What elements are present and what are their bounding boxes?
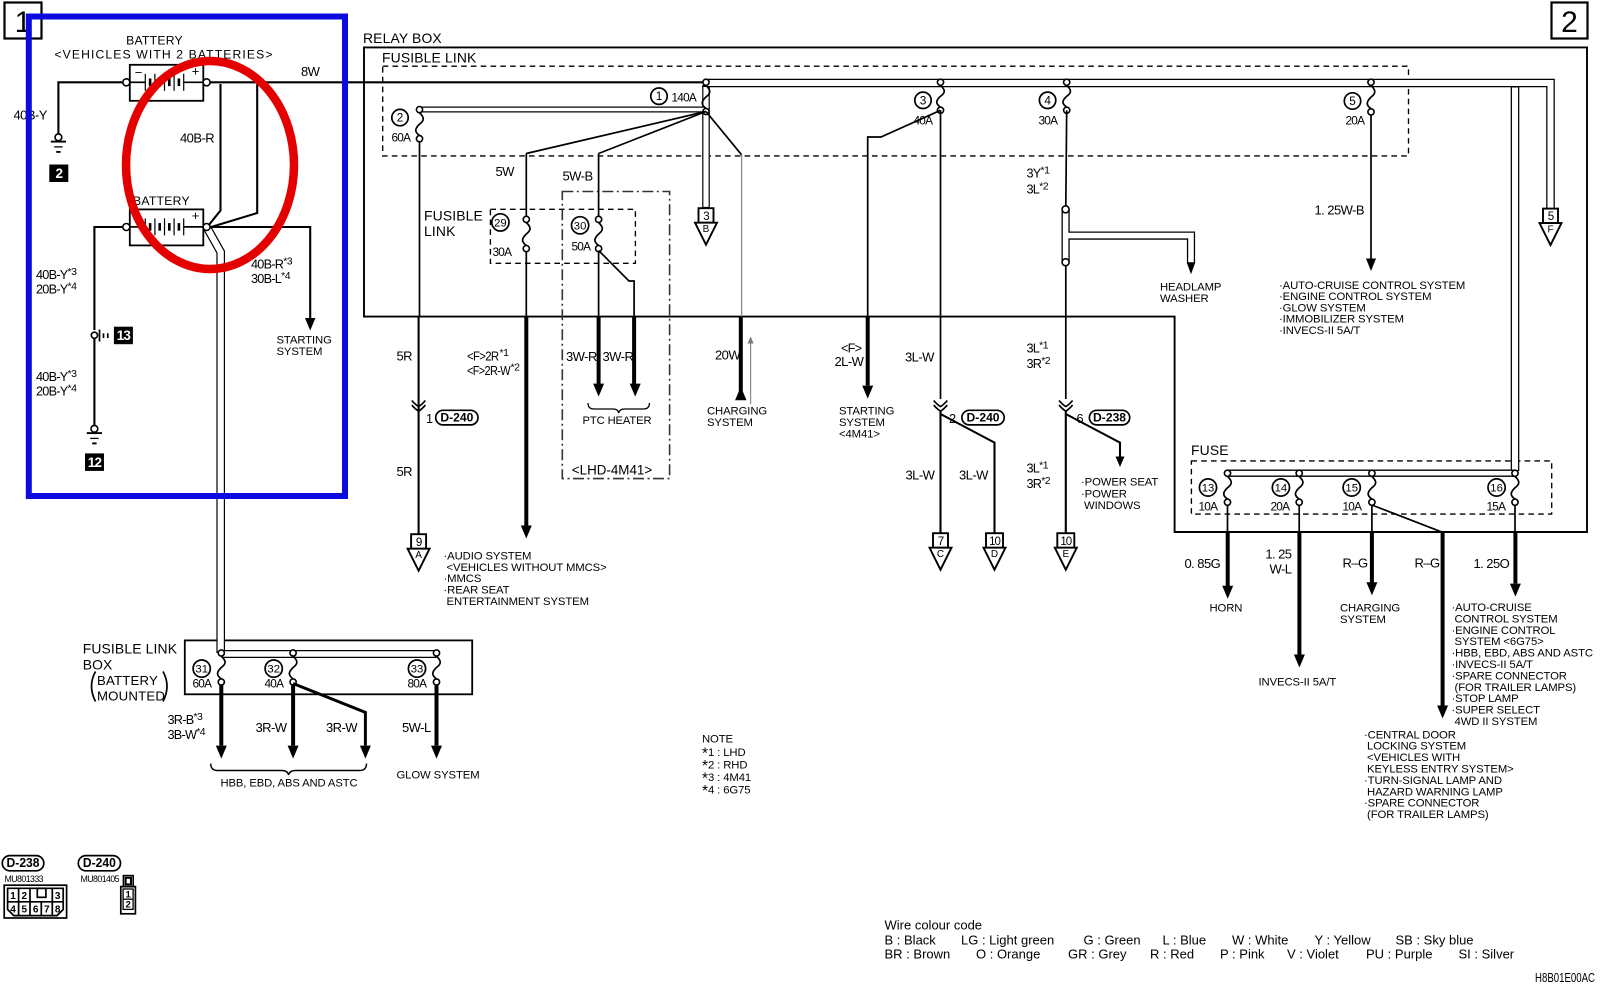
- svg-text:MOUNTED: MOUNTED: [97, 689, 165, 704]
- svg-text:12: 12: [88, 455, 102, 470]
- fusible link 33 80A: [408, 650, 441, 691]
- svg-text:RELAY BOX: RELAY BOX: [363, 30, 442, 46]
- svg-text:MU801333: MU801333: [5, 874, 44, 884]
- svg-text:3: 3: [920, 93, 927, 107]
- battery B2 (lower): [130, 208, 204, 246]
- inline connector 6 D-238 chevrons: [1059, 401, 1073, 407]
- svg-text:7: 7: [44, 905, 50, 916]
- svg-text:FUSE: FUSE: [1191, 442, 1229, 458]
- svg-text:HBB, EBD, ABS AND ASTC: HBB, EBD, ABS AND ASTC: [221, 778, 358, 790]
- svg-text:BATTERY: BATTERY: [97, 673, 158, 688]
- wire 33 output 5W-L: [435, 685, 439, 746]
- svg-text:1. 25: 1. 25: [1265, 547, 1291, 562]
- svg-text:+: +: [192, 208, 200, 223]
- svg-text:3R-W: 3R-W: [326, 720, 358, 735]
- terminal 3/B: [695, 208, 717, 245]
- relay box outline: [364, 47, 1587, 532]
- battery B1 terminal circles: [123, 79, 130, 86]
- fuse 16 15A: [1487, 470, 1519, 513]
- svg-text:60A: 60A: [392, 131, 412, 145]
- blue highlight box: [29, 17, 345, 497]
- svg-text:H8B01E00AC: H8B01E00AC: [1535, 971, 1595, 985]
- wire fuse 3 output 3L-W: [940, 110, 942, 399]
- svg-text:D-240: D-240: [967, 410, 1000, 424]
- wire battery B2 negative to connector 13: [94, 227, 122, 330]
- svg-text:80A: 80A: [408, 677, 428, 691]
- bus wire white cores: [208, 83, 1551, 654]
- svg-text:5R: 5R: [397, 349, 413, 364]
- brace HBB EBD ABS ASTC: [211, 764, 367, 776]
- inline connector 1 D-240 chevrons: [412, 401, 426, 407]
- svg-text:3W-R: 3W-R: [603, 349, 634, 364]
- page marker 2 box: [1552, 3, 1588, 40]
- svg-text:FUSIBLE: FUSIBLE: [424, 208, 483, 224]
- connector D-240 pin drawing: [121, 876, 136, 914]
- fusible link dashed box: [383, 66, 1409, 156]
- svg-text:1. 25W-B: 1. 25W-B: [1315, 203, 1365, 218]
- wire 3L-W branch to terminal 10D: [941, 414, 995, 533]
- wire connector 13 to ground 12: [93, 338, 95, 425]
- wire 20W charging input: [741, 155, 743, 317]
- wire 3L/3R to inline connector 6: [1065, 266, 1067, 399]
- svg-text:W-L: W-L: [1270, 562, 1292, 577]
- arrow fuse16 systems: [1510, 584, 1521, 597]
- svg-text:2L-W: 2L-W: [835, 354, 865, 369]
- wire 5W drop to fusible link 29: [525, 154, 527, 217]
- svg-text:R–G: R–G: [1415, 556, 1441, 571]
- svg-text:3L-W: 3L-W: [906, 468, 936, 483]
- svg-text:F: F: [1547, 225, 1553, 236]
- fusible link 2 60A: [392, 107, 424, 145]
- svg-text:CHARGING: CHARGING: [707, 406, 767, 418]
- connector D-238 pin drawing: [4, 885, 66, 918]
- svg-text:30A: 30A: [493, 245, 513, 259]
- svg-text:WASHER: WASHER: [1160, 293, 1209, 305]
- wire fuse 3 branch to starting 4M41: [868, 110, 941, 316]
- svg-text:4: 4: [10, 905, 16, 916]
- wire 3L-W to terminal 7C: [939, 411, 941, 533]
- svg-text:<VEHICLES WITH 2 BATTERIES>: <VEHICLES WITH 2 BATTERIES>: [54, 47, 273, 61]
- svg-text:BATTERY: BATTERY: [133, 194, 190, 208]
- arrow starting system 4M41: [862, 386, 873, 399]
- battery B2 terminal circles: [123, 224, 130, 231]
- svg-text:D-238: D-238: [1093, 410, 1126, 424]
- wire battery B1 negative to ground 2: [58, 82, 122, 134]
- svg-text:PTC HEATER: PTC HEATER: [583, 415, 652, 427]
- arrows PTC heater: [593, 384, 604, 397]
- wire branch to power seat/windows: [1066, 414, 1120, 458]
- svg-text:HORN: HORN: [1210, 603, 1243, 615]
- wire fuse15 branch to central door etc: [1372, 505, 1443, 532]
- svg-text:FUSIBLE LINK: FUSIBLE LINK: [382, 50, 477, 66]
- connector D-240 pin numbers: [126, 889, 132, 910]
- arrow charging system (points up): [735, 387, 747, 401]
- wire fusible link 2 output 5R: [419, 142, 421, 317]
- svg-text:60A: 60A: [193, 677, 213, 691]
- bus wire: battery feed bus (hollow): [208, 83, 1551, 654]
- wire fuse 5 output 1.25W-B: [1370, 115, 1372, 259]
- wire 40B-R (B1+ down to B2+): [208, 84, 221, 226]
- page marker 1 box: [5, 3, 42, 40]
- fusible link 31 60A: [193, 650, 226, 691]
- wire 8W battery B1 positive to relay box: [210, 81, 706, 83]
- svg-text:31: 31: [195, 664, 208, 676]
- svg-text:40A: 40A: [265, 677, 285, 691]
- svg-text:3W-R: 3W-R: [566, 349, 597, 364]
- svg-text:2: 2: [397, 111, 404, 125]
- svg-text:BOX: BOX: [83, 657, 113, 673]
- svg-text:9: 9: [416, 537, 422, 549]
- svg-text:SYSTEM: SYSTEM: [707, 417, 753, 429]
- terminal 10/E: [1055, 533, 1077, 570]
- svg-text:0. 85G: 0. 85G: [1185, 556, 1221, 571]
- svg-text:3: 3: [703, 211, 709, 223]
- svg-text:<F>2R: <F>2R: [467, 350, 499, 364]
- arrow central door list: [1437, 706, 1448, 719]
- fusible link 30 50A: [572, 216, 603, 253]
- svg-text:5W-B: 5W-B: [563, 169, 593, 184]
- wire fuse14 to INVECS: [1298, 505, 1300, 532]
- inline connector 2 D-240 chevrons: [934, 401, 948, 407]
- ground marker box 12: [85, 453, 104, 471]
- junction diagonals from fuse 1 output: [526, 112, 706, 154]
- wire B2+ to bus (parallel link): [210, 84, 258, 228]
- svg-text:1: 1: [126, 889, 132, 900]
- svg-text:E: E: [1062, 549, 1069, 560]
- svg-text:D-240: D-240: [440, 410, 473, 424]
- svg-text:20W: 20W: [715, 348, 741, 363]
- svg-text:15: 15: [1345, 483, 1358, 495]
- svg-text:3L-W: 3L-W: [905, 350, 935, 365]
- terminal 9/A: [408, 534, 430, 571]
- svg-text:5W: 5W: [496, 164, 516, 179]
- svg-text:6: 6: [33, 905, 39, 916]
- svg-text:STARTING: STARTING: [277, 335, 332, 347]
- arrow glow system: [431, 746, 442, 759]
- arrow charging system (fuse15): [1366, 582, 1377, 595]
- svg-text:1: 1: [426, 412, 433, 426]
- fusible link 3 40A: [914, 79, 945, 127]
- svg-text:3R-W: 3R-W: [256, 720, 288, 735]
- svg-text:50A: 50A: [572, 240, 592, 254]
- fuse 14 20A: [1271, 470, 1303, 513]
- arrow headlamp washer: [1187, 263, 1195, 275]
- wire 32 output 3R-W: [291, 685, 295, 746]
- svg-text:NOTE: NOTE: [702, 734, 734, 746]
- svg-text:5: 5: [1548, 211, 1554, 223]
- svg-text:5: 5: [22, 905, 28, 916]
- svg-text:*2: *2: [511, 362, 521, 374]
- arrow horn: [1222, 586, 1233, 599]
- connector D-238 label: [2, 856, 44, 871]
- svg-text:2: 2: [1561, 6, 1578, 39]
- arrow invecs: [1294, 655, 1305, 668]
- battery B1 (upper): [130, 63, 204, 101]
- svg-text:STARTING: STARTING: [839, 406, 894, 418]
- inline connector circles (headlamp feed): [1062, 206, 1069, 213]
- svg-text:13: 13: [117, 328, 132, 343]
- svg-text:10: 10: [989, 536, 1000, 548]
- fusible link 32 40A: [265, 650, 297, 691]
- label FUSIBLE LINK BOX (BATTERY MOUNTED): [83, 641, 178, 704]
- svg-text:SYSTEM: SYSTEM: [839, 417, 885, 429]
- FUSE dashed box: [1191, 461, 1551, 514]
- fusible link 4 30A: [1039, 79, 1071, 127]
- svg-text:1: 1: [656, 89, 663, 103]
- wire fusible link 30 output to PTC left: [598, 252, 600, 317]
- svg-text:BATTERY: BATTERY: [126, 34, 183, 48]
- wire fusible link 30 branch to PTC right: [599, 251, 635, 317]
- arrow audio system feed: [521, 526, 532, 539]
- svg-text:10: 10: [1060, 536, 1071, 548]
- fusible link 1 140A: [651, 79, 710, 114]
- svg-text:B: B: [703, 224, 710, 235]
- svg-text:20A: 20A: [1346, 114, 1366, 128]
- wire battery B2 positive to starting system: [210, 227, 310, 319]
- svg-text:−: −: [135, 65, 143, 80]
- svg-text:140A: 140A: [672, 91, 697, 105]
- svg-text:<4M41>: <4M41>: [839, 429, 880, 441]
- svg-text:<LHD-4M41>: <LHD-4M41>: [572, 463, 653, 478]
- svg-text:14: 14: [1275, 483, 1288, 495]
- svg-text:3: 3: [55, 891, 61, 902]
- svg-text:1. 25O: 1. 25O: [1474, 556, 1510, 571]
- svg-text:16: 16: [1490, 483, 1503, 495]
- svg-text:FUSIBLE LINK: FUSIBLE LINK: [83, 641, 178, 657]
- svg-text:30: 30: [574, 220, 587, 232]
- charging current direction arrow (small): [748, 337, 754, 405]
- connector marker box 13: [114, 327, 133, 345]
- svg-text:5R: 5R: [397, 464, 413, 479]
- arrow power seat: [1116, 457, 1125, 468]
- svg-text:*1: *1: [500, 347, 510, 359]
- NOTE block: [702, 734, 751, 801]
- connector D-240 label: [78, 856, 120, 871]
- svg-text:4: 4: [1044, 93, 1051, 107]
- connector 13 (earth bolt): [91, 330, 108, 342]
- svg-text:HEADLAMP: HEADLAMP: [1160, 282, 1221, 294]
- svg-text:LINK: LINK: [424, 223, 456, 239]
- svg-text:5: 5: [1349, 94, 1356, 108]
- svg-text:2: 2: [55, 166, 62, 181]
- PTC heater brace: [588, 403, 649, 413]
- ground symbol (marker 2): [51, 134, 66, 152]
- fusible link small dashed box (29,30): [490, 209, 635, 263]
- arrow to starting system: [305, 318, 316, 331]
- LHD-4M41 dash-dot box: [562, 192, 669, 479]
- fusible link 5 20A: [1344, 79, 1374, 127]
- arrow HBB 1: [216, 746, 227, 759]
- wire fuse13 to horn: [1227, 505, 1229, 532]
- connector D-238 pin numbers: [10, 891, 61, 916]
- svg-text:<F>2R-W: <F>2R-W: [467, 364, 511, 378]
- svg-text:D: D: [991, 549, 998, 560]
- ground symbol (marker 12): [87, 425, 102, 443]
- wire 32 branch 3R-W: [293, 684, 365, 746]
- svg-text:D-238: D-238: [7, 855, 40, 870]
- wire fuse 4 output 3Y/3L: [1065, 110, 1068, 206]
- arrow HBB 3: [360, 746, 371, 759]
- wire fuse16 output 1.25O: [1514, 505, 1516, 532]
- wire fuse15 to charging system: [1371, 505, 1373, 532]
- svg-text:10A: 10A: [1343, 500, 1363, 514]
- svg-text:32: 32: [267, 664, 280, 676]
- fuse box bus (hollow): [1228, 470, 1516, 477]
- svg-text:SYSTEM: SYSTEM: [277, 346, 323, 358]
- terminal 5/F: [1540, 209, 1562, 246]
- wire fusible link 29 output (F 2R): [525, 252, 527, 317]
- svg-text:R–G: R–G: [1343, 556, 1369, 571]
- svg-text:2: 2: [22, 891, 28, 902]
- svg-text:13: 13: [1202, 483, 1215, 495]
- arrow HBB 2: [288, 746, 299, 759]
- svg-text:15A: 15A: [1487, 500, 1507, 514]
- fusible link box (battery mounted) outline: [185, 640, 472, 694]
- wire to terminal 10E: [1065, 411, 1067, 533]
- svg-text:CHARGING: CHARGING: [1340, 603, 1400, 615]
- fuse 13 10A: [1199, 470, 1232, 513]
- fuse 15 10A: [1343, 470, 1376, 513]
- svg-text:A: A: [415, 550, 422, 561]
- svg-text:3L-W: 3L-W: [959, 468, 989, 483]
- wire 31 output 3R-B/3B-W: [219, 685, 223, 746]
- terminal 7/C: [930, 533, 952, 570]
- ground marker box 2: [49, 165, 68, 183]
- arrow fuse5 systems: [1366, 259, 1376, 272]
- svg-text:33: 33: [411, 664, 424, 676]
- svg-text:C: C: [937, 549, 944, 560]
- svg-text:29: 29: [494, 217, 507, 229]
- svg-text:1: 1: [10, 891, 16, 902]
- svg-text:D-240: D-240: [83, 855, 116, 870]
- wire 5W-B drop to fusible link 30: [598, 154, 600, 217]
- fusible link 29 30A: [492, 214, 530, 259]
- svg-text:GLOW SYSTEM: GLOW SYSTEM: [397, 770, 480, 782]
- svg-text:7: 7: [938, 536, 944, 548]
- svg-text:8W: 8W: [301, 64, 321, 79]
- svg-text:INVECS-II 5A/T: INVECS-II 5A/T: [1259, 677, 1337, 689]
- svg-text:40B-R: 40B-R: [180, 131, 214, 146]
- svg-text:10A: 10A: [1199, 500, 1219, 514]
- svg-text:8: 8: [55, 905, 61, 916]
- svg-text:20A: 20A: [1271, 500, 1291, 514]
- svg-text:Wire colour code: Wire colour code: [885, 918, 983, 933]
- svg-text:SYSTEM: SYSTEM: [1340, 614, 1386, 626]
- terminal 10/D: [984, 533, 1006, 570]
- red highlight ellipse: [126, 61, 294, 269]
- svg-text:MU801405: MU801405: [81, 874, 120, 884]
- svg-text:30A: 30A: [1039, 114, 1059, 128]
- svg-text:5W-L: 5W-L: [402, 720, 431, 735]
- svg-text:2: 2: [126, 900, 131, 911]
